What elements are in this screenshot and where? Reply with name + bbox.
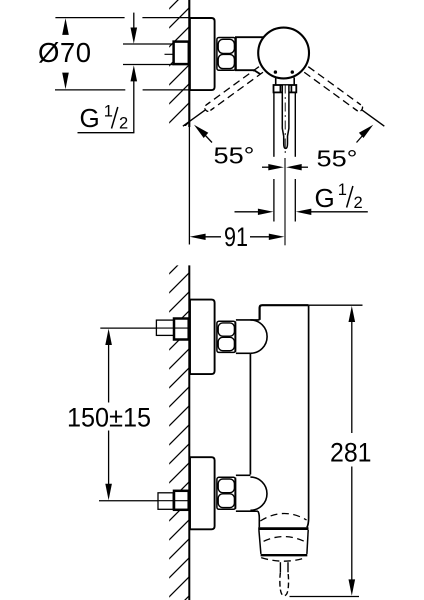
- handle screw dot left: [274, 70, 277, 73]
- outlet pipe behind lever: [273, 92, 275, 156]
- dia70 top extension line: [55, 17, 124, 19]
- hidden arc inside coupling: [264, 537, 305, 542]
- svg-text:Ø70: Ø70: [38, 37, 91, 68]
- handle screw dot right: [291, 70, 294, 73]
- wall face extension line down to 91 dim: [188, 127, 190, 245]
- escutcheon (top view): [190, 18, 215, 90]
- lever hub: [274, 78, 297, 93]
- label G 1/2 (top left): [80, 102, 129, 132]
- wall face line (side view): [188, 265, 190, 600]
- svg-text:1: 1: [104, 102, 113, 120]
- svg-text:91: 91: [224, 222, 248, 252]
- dashed lever rotated left 55: [304, 67, 386, 129]
- wall face line (top view): [188, 0, 190, 127]
- body top edge: [260, 305, 309, 320]
- svg-text:2: 2: [119, 114, 128, 132]
- hidden arc below coupling: [261, 558, 306, 562]
- lower supply stub: [158, 493, 173, 510]
- wall (top view) hatching: [150, 0, 198, 161]
- body left edge: [249, 353, 251, 474]
- dia70 arrows: [62, 18, 69, 35]
- label G 1/2 (middle): [315, 181, 363, 213]
- pipe centerline (top view): [165, 53, 188, 55]
- outlet elbow left: [258, 511, 259, 527]
- 91 dimension: [190, 234, 285, 240]
- lever centerline solid lower: [284, 158, 286, 245]
- pipe G1/2 dimension (top left): [78, 13, 138, 133]
- svg-text:2: 2: [354, 194, 363, 212]
- dashed lever rotated right 55: [181, 67, 263, 129]
- wall (side view) hatching: [150, 245, 198, 600]
- hose nipple: [280, 562, 289, 596]
- body right edge: [307, 306, 309, 528]
- escutcheon upper (side view): [190, 300, 215, 375]
- svg-text:150±15: 150±15: [67, 403, 151, 433]
- hidden ball arc above coupling: [260, 513, 306, 521]
- svg-text:1: 1: [338, 181, 347, 199]
- 55 deg leader arrow right: [357, 125, 374, 143]
- dia70 bottom extension line: [55, 89, 125, 91]
- lever centerline dash-dot: [284, 85, 286, 154]
- svg-text:G: G: [315, 183, 335, 213]
- coupling nut: [258, 529, 308, 556]
- escutcheon lower (side view): [190, 457, 215, 529]
- 150 dimension line and arrows: [105, 329, 112, 501]
- lower pipe square in wall: [174, 491, 189, 510]
- svg-text:55°: 55°: [214, 143, 255, 169]
- body neck (top view): [236, 37, 266, 74]
- upper inlet boss: [236, 320, 267, 353]
- upper pipe square in wall: [174, 319, 189, 340]
- outlet G1/2 dimension arrows: [235, 209, 368, 215]
- lower inlet boss: [236, 475, 267, 511]
- lever handle (vertical): [282, 86, 289, 149]
- upper supply stub: [156, 320, 174, 335]
- 150 dim upper extension / centerline: [100, 327, 189, 329]
- svg-text:55°: 55°: [317, 146, 358, 172]
- valve body circle: [258, 28, 309, 79]
- 150 dim lower extension / centerline: [99, 500, 190, 502]
- hex nut upper (side view): [217, 321, 236, 352]
- supply pipe (top view): [123, 43, 174, 45]
- hex nut lower (side view): [217, 477, 236, 509]
- hex nut (top view): [217, 38, 236, 71]
- 55 deg leader arrow left: [194, 125, 212, 143]
- outlet G1/2 extension lines: [273, 179, 275, 222]
- pipe square in wall (top view): [174, 42, 189, 65]
- svg-text:281: 281: [330, 438, 372, 468]
- svg-text:G: G: [80, 103, 100, 133]
- 55 deg convergence arrows at lever centerline: [262, 164, 308, 170]
- 281 dimension: [290, 305, 363, 596]
